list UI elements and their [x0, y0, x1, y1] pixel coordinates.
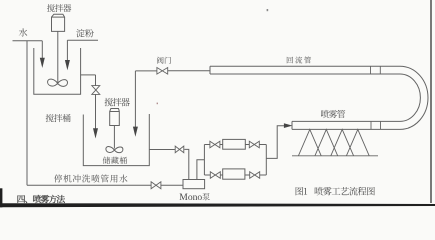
valve V2 阀门 (return)	[157, 68, 168, 75]
pipe: valve V1 to storage tank	[95, 94, 97, 130]
pipe: starch feed header	[67, 39, 98, 41]
meter/strainer A	[223, 139, 246, 149]
label: 泵	[202, 193, 209, 200]
pipe: starch drop into mixing tank	[66, 40, 68, 61]
pipe: water supply header	[13, 40, 43, 42]
caption: 喷雾工艺流程图	[315, 187, 375, 196]
svg-text:Mono: Mono	[179, 192, 202, 203]
pipe: storage tank outlet	[149, 149, 175, 151]
pipe: return pipe 回流管	[210, 66, 400, 74]
scan speck	[157, 103, 158, 105]
scan: bottom black edge	[0, 203, 435, 207]
vessel: storage tank 储藏桶	[83, 114, 149, 166]
motor M1 (stirrer drive)	[52, 14, 65, 31]
pipe: mixing tank outlet	[80, 74, 95, 76]
arrow: return into storage tank	[133, 127, 138, 137]
pipe: return pipe to valve V2	[168, 70, 210, 72]
pipe: return line into storage tank	[134, 71, 136, 128]
valve V5	[249, 141, 259, 148]
label: 淀粉 (starch)	[76, 29, 93, 37]
pump Mono	[183, 180, 205, 189]
scan speck	[267, 9, 269, 11]
pipe: U-bend	[400, 66, 428, 129]
label: 停机冲洗喷管用水	[54, 174, 127, 182]
caption: 四、喷雾方法	[18, 195, 66, 203]
arrow: feed into spray pipe	[284, 123, 293, 128]
pipe: branch join header	[265, 145, 267, 176]
ground line under spray	[292, 155, 378, 157]
label: stirrer 搅拌器 (storage tank)	[105, 98, 130, 106]
scan: right page edge line	[430, 0, 432, 203]
label: 回流管 (return pipe)	[287, 56, 311, 63]
pipe: manifold header	[203, 145, 205, 176]
label: 阀门 (valve)	[157, 57, 171, 64]
valve V4	[210, 141, 220, 148]
shaft of stirrer M1	[57, 31, 59, 83]
pipe: flush water down-leg from water header	[26, 41, 28, 185]
scan: bottom-left black mark	[0, 188, 2, 207]
arrow: starch feed	[65, 60, 70, 70]
label: 喷雾管 (spray pipe)	[321, 110, 345, 118]
pipe: top branch	[204, 144, 210, 146]
arrow: water feed	[40, 58, 45, 68]
caption: 图1 (figure)	[296, 187, 308, 195]
label: stirrer 搅拌器 (mixing tank)	[47, 4, 71, 12]
propeller of stirrer M1	[48, 79, 68, 86]
shaft of stirrer M2	[113, 126, 115, 149]
motor M2 (storage tank stirrer)	[110, 109, 120, 126]
joint ticks on spray pipe	[370, 121, 372, 129]
valve V7	[250, 172, 260, 179]
pipe: feed riser to spray pipe	[266, 126, 284, 159]
label: 水 (water)	[19, 28, 28, 36]
valve V1 (tank outlet)	[92, 86, 100, 95]
pipe: water drop into mixing tank	[41, 41, 43, 60]
label: 搅拌桶 (mixing tank)	[46, 114, 71, 122]
valve V3 (pump suction)	[175, 146, 184, 153]
joint ticks on return pipe	[370, 66, 372, 74]
pipe: spray pipe 喷雾管	[292, 121, 400, 129]
arrow: feed into storage tank	[93, 128, 98, 138]
propeller of stirrer M2	[106, 147, 123, 153]
pipe: suction into pump	[184, 149, 189, 179]
valve V-flush	[151, 182, 161, 189]
vessel: mixing tank 搅拌桶	[34, 48, 81, 94]
valve V6	[210, 172, 220, 179]
label: 储藏桶 (storage tank)	[103, 157, 127, 164]
pipe: pump discharge riser	[197, 160, 205, 180]
pipe: flush water line to pump	[27, 184, 151, 186]
pipe: bottom branch	[204, 174, 210, 176]
spray cones	[298, 129, 369, 155]
meter/strainer B	[223, 169, 245, 179]
pipe: flush line valve to pump	[161, 184, 183, 186]
